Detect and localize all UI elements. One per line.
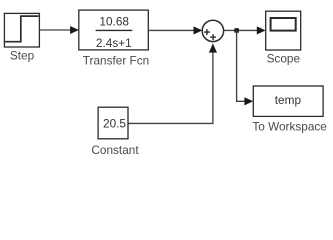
svg-text:Constant: Constant [91,143,139,157]
wire Step to Transfer Fcn [39,26,79,34]
svg-text:Scope: Scope [267,52,301,66]
svg-text:20.5: 20.5 [103,117,126,131]
to workspace block temp [253,86,323,116]
wire Transfer Fcn to sum [148,26,202,34]
svg-text:temp: temp [275,93,302,107]
wire junction to To Workspace [237,30,254,105]
svg-text:2.4s+1: 2.4s+1 [96,36,132,50]
svg-text:Step: Step [10,49,35,63]
junction node dot [234,28,239,33]
transfer function block Transfer Fcn [79,10,149,50]
sum junction [202,20,223,41]
svg-text:To Workspace: To Workspace [252,120,327,134]
svg-text:Transfer Fcn: Transfer Fcn [83,54,149,68]
wire sum to Scope [224,26,266,34]
constant block Constant [98,107,128,139]
step source block Step [4,13,39,47]
scope block Scope [266,11,301,50]
svg-text:10.68: 10.68 [99,14,129,28]
wire Constant to sum (bottom input) [128,43,217,123]
